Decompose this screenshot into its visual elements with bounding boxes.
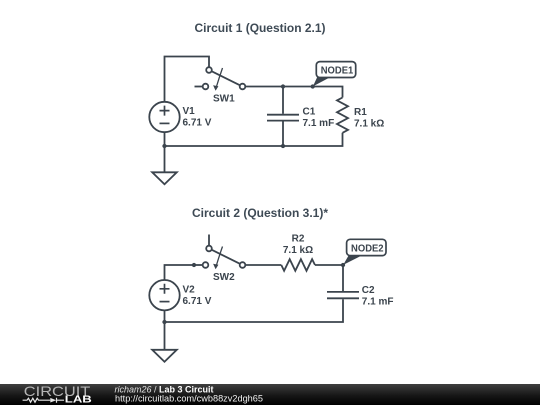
svg-text:6.71 V: 6.71 V	[183, 296, 212, 307]
wire C1 top	[282, 87, 284, 114]
svg-text:7.1 mF: 7.1 mF	[362, 297, 394, 308]
switch SW1 arrowhead	[213, 85, 218, 91]
svg-text:Circuit 2 (Question 3.1)*: Circuit 2 (Question 3.1)*	[192, 206, 328, 220]
switch SW1 blade	[212, 71, 241, 85]
svg-text:R2: R2	[292, 233, 305, 244]
junction dot throw stub	[192, 263, 196, 267]
NODE2 flag tail	[343, 256, 361, 265]
junction dot V2 bottom	[162, 320, 166, 324]
switch SW2 left throw stub	[194, 264, 203, 266]
junction dot C1 top	[281, 84, 285, 88]
wire V1 top to SW1 top terminal	[165, 57, 210, 103]
svg-text:7.1 kΩ: 7.1 kΩ	[354, 118, 384, 129]
svg-text:LAB: LAB	[65, 395, 92, 405]
wire ground 2	[164, 322, 166, 350]
svg-text:V1: V1	[183, 106, 196, 117]
logo resistor zigzag	[23, 398, 51, 402]
switch SW1 left throw stub	[195, 86, 203, 88]
wire V2 top to throw stub	[165, 265, 195, 280]
switch SW2 motion arc	[217, 247, 223, 266]
NODE2 flag box	[347, 239, 386, 255]
capacitor C1 top plate	[267, 114, 299, 116]
svg-text:SW2: SW2	[213, 272, 235, 283]
switch SW2 common terminal	[240, 262, 246, 268]
junction dot node1	[311, 84, 315, 88]
logo diode	[50, 398, 56, 403]
wire top rail circuit 1	[245, 87, 342, 98]
svg-text:7.1 mF: 7.1 mF	[303, 118, 335, 129]
junction dot V1 bottom	[162, 144, 166, 148]
svg-text:R1: R1	[354, 107, 367, 118]
ground 2	[152, 350, 177, 362]
svg-text:Circuit 1 (Question 2.1): Circuit 1 (Question 2.1)	[195, 21, 326, 35]
junction dot C1 bottom	[281, 144, 285, 148]
voltage source V2	[149, 280, 179, 310]
wire R2 to node2	[315, 264, 343, 266]
switch SW2 left throw terminal	[203, 262, 209, 268]
svg-text:V2: V2	[183, 285, 196, 296]
voltage source V1	[149, 102, 179, 132]
NODE1 flag tail	[313, 77, 332, 87]
svg-text:6.71 V: 6.71 V	[183, 118, 212, 129]
switch SW1 left throw terminal	[203, 84, 209, 90]
svg-text:C1: C1	[303, 107, 316, 118]
svg-text:SW1: SW1	[213, 94, 235, 105]
wire R1 bottom + bottom rail circuit 1	[165, 133, 343, 146]
V1 plus sign	[160, 106, 170, 116]
wire V2 bottom	[164, 310, 166, 322]
V2 plus sign	[160, 284, 170, 294]
NODE1 flag box	[316, 62, 355, 78]
switch SW1 top terminal	[206, 67, 212, 73]
switch SW2 arrowhead	[213, 264, 218, 270]
capacitor C2 bottom plate	[327, 297, 359, 299]
switch SW1 common terminal	[240, 84, 246, 90]
footer bar	[0, 384, 540, 405]
capacitor C1 bottom plate	[267, 120, 299, 122]
wire C1 bottom	[282, 122, 284, 147]
switch SW1 motion arc	[217, 68, 223, 87]
capacitor C2 top plate	[327, 291, 359, 293]
junction dot node2	[341, 263, 345, 267]
wire SW2 to R2	[245, 264, 281, 266]
V1 minus sign	[160, 122, 170, 124]
V2 minus sign	[160, 301, 170, 303]
switch SW2 top stub	[208, 235, 210, 246]
svg-text:C2: C2	[362, 285, 375, 296]
wire ground 1	[164, 146, 166, 172]
wire V1 bottom	[164, 132, 166, 146]
svg-text:7.1 kΩ: 7.1 kΩ	[283, 245, 313, 256]
switch SW2 blade	[212, 250, 241, 264]
wire node2 to C2	[342, 265, 344, 291]
svg-text:NODE1: NODE1	[321, 66, 354, 77]
resistor R2	[281, 259, 315, 271]
resistor R1	[337, 98, 348, 133]
svg-text:http://circuitlab.com/cwb88zv2: http://circuitlab.com/cwb88zv2dgh65	[115, 393, 263, 404]
switch SW2 top terminal	[206, 246, 212, 252]
svg-text:NODE2: NODE2	[351, 244, 384, 255]
wire C2 bottom + bottom rail circuit 2	[165, 299, 344, 322]
ground 1	[152, 172, 177, 184]
